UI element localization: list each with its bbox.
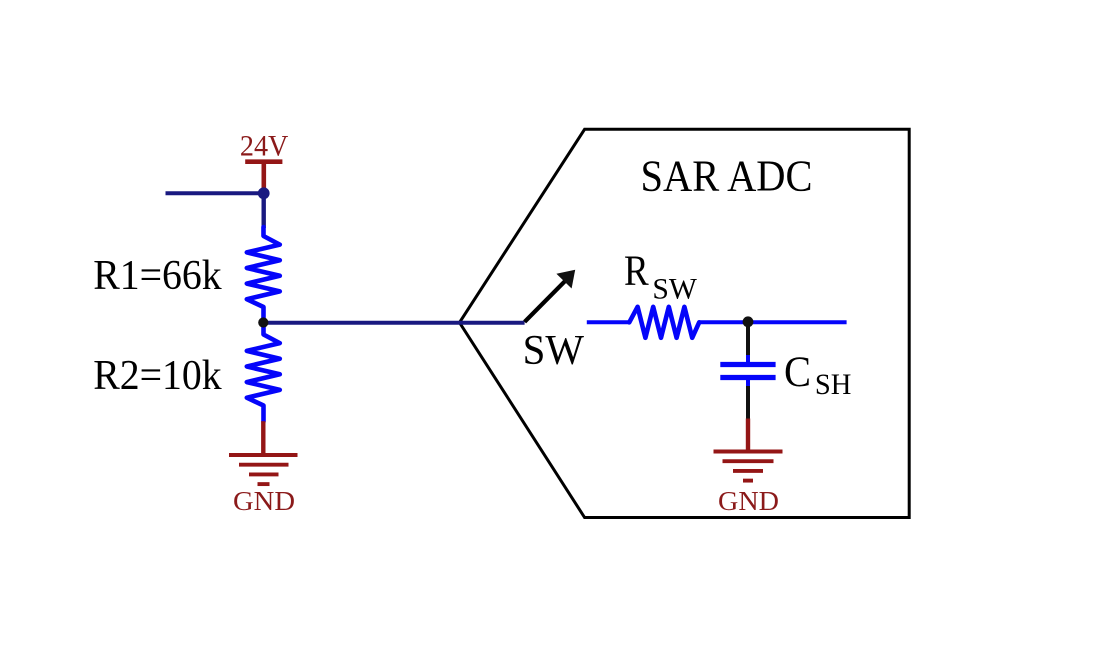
svg-text:GND: GND <box>233 485 295 516</box>
svg-text:SW: SW <box>523 328 585 374</box>
svg-text:SAR ADC: SAR ADC <box>641 152 813 201</box>
svg-text:SH: SH <box>815 368 852 401</box>
svg-text:R: R <box>624 248 649 295</box>
svg-text:GND: GND <box>718 485 779 516</box>
svg-text:R2=10k: R2=10k <box>93 353 222 399</box>
svg-text:C: C <box>784 349 811 396</box>
svg-text:SW: SW <box>652 273 697 306</box>
svg-text:R1=66k: R1=66k <box>93 253 222 299</box>
svg-text:24V: 24V <box>240 131 289 163</box>
